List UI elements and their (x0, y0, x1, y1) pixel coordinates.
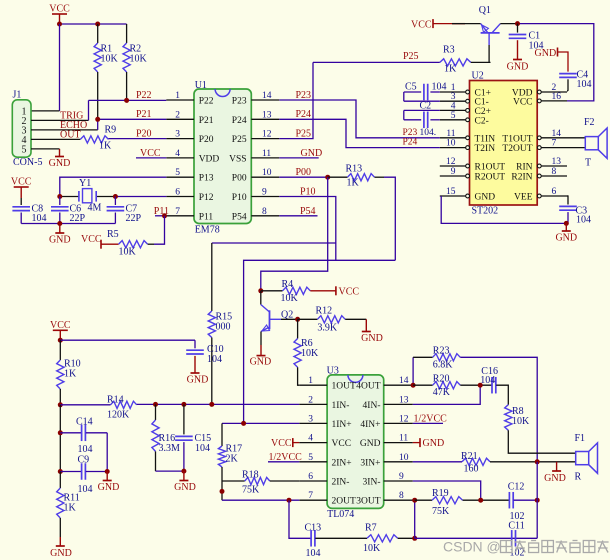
svg-text:15: 15 (446, 187, 456, 197)
svg-text:VCC: VCC (11, 177, 32, 188)
svg-text:1K: 1K (64, 503, 77, 514)
resistor R2 (126, 24, 128, 43)
U3 pin 3 (1IN+) (299, 422, 327, 424)
wire P11 stub (155, 215, 166, 217)
svg-text:1K: 1K (64, 369, 77, 380)
resistor R8 (505, 405, 512, 431)
svg-text:GND: GND (301, 148, 323, 159)
svg-text:P00: P00 (296, 167, 312, 178)
resistor R3 (440, 59, 471, 66)
U1 pin 1 (P22) (166, 99, 194, 101)
svg-text:GND: GND (423, 438, 445, 449)
U2 pin 7 (T2OUT) (541, 147, 567, 149)
svg-text:CSDN @: CSDN @ (443, 539, 501, 555)
svg-text:P25: P25 (296, 128, 312, 139)
svg-text:1IN-: 1IN- (332, 401, 350, 411)
junction at VCC/R1 column (57, 22, 62, 27)
wire R7 to junction (398, 537, 415, 539)
svg-text:22P: 22P (70, 213, 86, 224)
wire P13 to crystal (60, 177, 167, 196)
wire P25 from U1 up to R3 line (279, 62, 313, 138)
junction C15 bottom (181, 469, 186, 474)
resistor R13 (328, 176, 348, 178)
svg-text:P21: P21 (136, 109, 152, 120)
svg-text:P20: P20 (136, 128, 152, 139)
wire J1 pin1 to VCC (59, 24, 61, 111)
svg-text:GND: GND (174, 482, 196, 493)
ground under C10 (194, 365, 196, 374)
svg-text:6.8K: 6.8K (433, 359, 454, 370)
capacitor C16 (491, 377, 493, 394)
wire R5 to P11 (148, 243, 154, 245)
svg-text:104: 104 (78, 444, 93, 455)
wire into C2+ pin4 (404, 109, 440, 111)
U1 pin 13 (P24) (251, 118, 279, 120)
wire J1 pin4 OUT (31, 138, 80, 140)
svg-text:14: 14 (399, 376, 409, 386)
svg-text:GND: GND (250, 357, 272, 368)
svg-text:1: 1 (308, 376, 313, 386)
svg-text:4IN+: 4IN+ (360, 420, 380, 430)
svg-text:EM78: EM78 (195, 224, 220, 235)
svg-text:104: 104 (576, 215, 591, 226)
U2 pin 4 (C2+) (440, 109, 466, 111)
junction R2/P22 (124, 98, 129, 103)
svg-text:3: 3 (308, 414, 313, 424)
svg-text:14: 14 (262, 91, 272, 101)
wire VCC rail (60, 23, 127, 25)
svg-text:R2IN: R2IN (511, 173, 532, 183)
svg-text:VEE: VEE (514, 193, 533, 203)
svg-text:C11: C11 (508, 521, 524, 532)
svg-text:104: 104 (195, 443, 210, 454)
ground at R12 (365, 319, 367, 331)
resistor R19 (415, 499, 432, 501)
svg-text:OUT: OUT (60, 129, 81, 140)
svg-text:R23: R23 (433, 345, 450, 356)
junction C3 bottom (564, 221, 569, 226)
svg-text:10K: 10K (101, 54, 119, 65)
svg-text:C14: C14 (76, 417, 93, 428)
svg-text:10K: 10K (281, 293, 299, 304)
svg-text:GND: GND (50, 548, 72, 559)
svg-text:GND: GND (544, 473, 566, 484)
svg-text:R20: R20 (433, 373, 450, 384)
svg-text:CON-5: CON-5 (13, 157, 42, 168)
svg-text:P11: P11 (199, 212, 214, 222)
resistor R4 (258, 288, 263, 293)
resistor R23 (413, 356, 433, 358)
svg-text:P13: P13 (199, 174, 214, 184)
U3 pin 8 (3OUT) (384, 499, 413, 501)
junction pin14 node (411, 383, 416, 388)
svg-text:11: 11 (446, 129, 455, 139)
wire R16/C15 bottom (156, 470, 184, 472)
capacitor C8 (20, 198, 22, 205)
wire 2OUT row (222, 499, 299, 501)
wire into C1- pin3 (404, 100, 440, 102)
wire R15 top link (212, 242, 336, 244)
capacitor C14 (60, 432, 81, 434)
U2 pin 14 (T1OUT) (541, 137, 567, 139)
junction VCC/R10/C10 (58, 338, 63, 343)
svg-text:P23: P23 (403, 128, 418, 138)
wire U2 GND pin15 loop (441, 196, 568, 223)
svg-text:VSS: VSS (229, 154, 246, 164)
junction crystal right (113, 194, 118, 199)
wire P10 stub down to line A (279, 197, 336, 261)
wire R6 to U3 1OUT (298, 367, 300, 385)
wire vertical pin8 to bottom row (414, 500, 416, 538)
resistor R5 (119, 241, 148, 248)
svg-text:8: 8 (552, 167, 557, 177)
resistor R21 (413, 461, 462, 463)
svg-text:VCC: VCC (332, 439, 352, 449)
speaker F2 (567, 137, 585, 139)
U3 pin 13 (4IN-) (384, 403, 413, 405)
svg-text:4: 4 (308, 434, 313, 444)
svg-text:8: 8 (399, 491, 404, 501)
svg-text:P10: P10 (232, 193, 247, 203)
svg-text:R21: R21 (461, 451, 478, 462)
svg-text:R1OUT: R1OUT (475, 163, 506, 173)
svg-text:10: 10 (262, 168, 272, 178)
junction bus/R15 (209, 402, 214, 407)
capacitor C11 (511, 530, 513, 547)
svg-text:P25: P25 (403, 51, 419, 62)
svg-text:2: 2 (308, 395, 313, 405)
svg-text:GND: GND (360, 439, 381, 449)
wire C4 to U2 VDD pin2 (567, 90, 568, 92)
svg-text:7: 7 (552, 139, 557, 149)
wire ground bus under crystal (21, 223, 115, 225)
svg-text:9: 9 (451, 167, 456, 177)
svg-text:R13: R13 (346, 164, 363, 175)
svg-text:T: T (585, 158, 591, 169)
svg-text:5: 5 (308, 453, 313, 463)
wire R9 to U1 P20 (109, 138, 167, 140)
svg-text:104: 104 (432, 82, 447, 93)
svg-text:12: 12 (446, 157, 456, 167)
svg-text:C2-: C2- (475, 116, 489, 126)
junction R19/pin9 node (478, 498, 483, 503)
svg-text:R2OUT: R2OUT (475, 173, 506, 183)
svg-text:P24: P24 (232, 116, 247, 126)
svg-text:1/2VCC: 1/2VCC (269, 452, 303, 463)
svg-text:R7: R7 (365, 523, 377, 534)
wire J1 pin2 TRIG (31, 119, 89, 121)
junction crystal left (57, 194, 62, 199)
wire P54 stub (279, 215, 317, 217)
wire P25 to R3 (313, 61, 440, 63)
U2 pin 10 (T2IN) (440, 147, 466, 149)
U3 pin 1 (1OUT) (299, 384, 327, 386)
wire Q1 base to R3 (488, 33, 490, 45)
junction bus/C15 (181, 402, 186, 407)
U3 pin 11 (GND) (384, 442, 413, 444)
capacitor C10 (194, 340, 196, 348)
wire P00 down to Q2 collector (261, 177, 328, 291)
svg-text:6: 6 (552, 187, 557, 197)
wire R19 to C12 (463, 499, 509, 501)
svg-text:104: 104 (480, 375, 495, 386)
svg-text:VCC: VCC (140, 148, 161, 159)
svg-text:22P: 22P (126, 213, 142, 224)
svg-text:P23: P23 (232, 97, 247, 107)
svg-text:2OUT: 2OUT (332, 497, 356, 507)
resistor R6 (297, 319, 299, 338)
wire J1 pin5 to ground (31, 148, 60, 150)
power label VCC at U1 VDD (136, 157, 166, 159)
power VCC port at R4 (310, 290, 336, 292)
svg-text:R4: R4 (282, 279, 294, 290)
capacitor C4 (559, 73, 577, 75)
svg-text:VCC: VCC (50, 320, 71, 331)
svg-text:1K: 1K (444, 64, 457, 75)
wire C12 right to long vertical (514, 499, 538, 501)
wire C13 to R7 (315, 537, 367, 539)
svg-text:Q1: Q1 (479, 5, 491, 16)
IC U3 TL074 (327, 375, 384, 509)
svg-text:16: 16 (552, 92, 562, 102)
resistor R1 (97, 24, 99, 43)
resistor R20 (413, 384, 433, 386)
U2 pin 8 (R2IN) (541, 175, 567, 177)
svg-text:5: 5 (22, 144, 27, 155)
svg-text:10K: 10K (301, 348, 319, 359)
wire collector node to U2 VCC pin16 (518, 24, 594, 101)
svg-text:VCC: VCC (81, 234, 102, 245)
svg-text:GND: GND (49, 158, 71, 169)
svg-text:2IN+: 2IN+ (332, 458, 352, 468)
svg-text:ST202: ST202 (472, 206, 499, 217)
svg-text:104: 104 (207, 354, 222, 365)
svg-text:10K: 10K (512, 416, 530, 427)
U3 pin 2 (1IN-) (299, 403, 327, 405)
junction pin8/R19 (412, 498, 417, 503)
svg-text:GND: GND (507, 62, 529, 73)
ground at J1 pin5 (59, 149, 61, 157)
svg-text:5: 5 (175, 168, 180, 178)
capacitor C5 (404, 91, 421, 93)
U2 pin 3 (C1-) (440, 100, 466, 102)
wire pin9 to pin8 row (413, 481, 481, 500)
U3 pin 5 (2IN+) (299, 461, 327, 463)
U1 pin 2 (P21) (166, 118, 194, 120)
svg-text:11: 11 (399, 434, 408, 444)
wire R12 to ground (345, 318, 366, 320)
junction R20/C16 (478, 383, 483, 388)
svg-text:R: R (575, 472, 582, 483)
junction C12/long vertical (535, 498, 540, 503)
resistor R15 (211, 243, 213, 311)
net label 1/2VCC at U3 pin12 (413, 422, 443, 424)
svg-text:3.9K: 3.9K (317, 322, 338, 333)
svg-text:GND: GND (475, 193, 496, 203)
U1 pin 10 (P00) (251, 176, 279, 178)
svg-text:12: 12 (262, 130, 272, 140)
svg-text:C13: C13 (305, 522, 322, 533)
svg-text:P20: P20 (199, 135, 214, 145)
ground port at U3 pin11 (413, 442, 420, 444)
resistor R7 (367, 535, 398, 542)
capacitor C7 (114, 197, 116, 206)
wire R8 to F1 top (508, 430, 575, 453)
U1 pin 9 (P10) (251, 196, 279, 198)
U2 pin 13 (RIN) (541, 165, 567, 167)
resistor R10 (59, 340, 61, 360)
wire R23 to long vertical (460, 357, 537, 462)
svg-text:U1: U1 (195, 80, 207, 91)
svg-text:P21: P21 (199, 116, 214, 126)
svg-text:C9: C9 (78, 455, 90, 466)
junction 2OUT/C13 branch (287, 498, 292, 503)
svg-text:P22: P22 (136, 90, 152, 101)
capacitor C2 (404, 119, 421, 121)
svg-text:RIN: RIN (516, 163, 533, 173)
capacitor C1 (517, 24, 519, 33)
U2 pin 16 (VCC) (541, 100, 567, 102)
wire R14 bus left (60, 404, 110, 406)
svg-text:11: 11 (262, 149, 271, 159)
U3 pin 10 (3IN+) (384, 461, 413, 463)
svg-text:VCC: VCC (513, 97, 533, 107)
IC U1 EM78 (194, 89, 251, 224)
wire C16 to R8 (496, 385, 508, 405)
svg-text:7: 7 (308, 491, 313, 501)
wire bottom row to C11 corner (415, 537, 538, 539)
capacitor C12 (508, 492, 510, 509)
svg-text:F1: F1 (575, 433, 586, 444)
svg-text:4: 4 (175, 149, 180, 159)
svg-text:C5: C5 (405, 82, 417, 93)
U1 pin 14 (P23) (251, 99, 279, 101)
U2 pin 15 (GND) (440, 195, 466, 197)
svg-text:1OUT: 1OUT (332, 382, 356, 392)
svg-text:U3: U3 (327, 365, 339, 376)
ground at C14/C9 (106, 472, 108, 481)
connector J1 CON-5 (12, 100, 31, 157)
svg-text:R14: R14 (107, 395, 124, 406)
net label GND at U1 VSS (279, 157, 318, 159)
svg-text:R3: R3 (443, 44, 455, 55)
svg-text:P10: P10 (300, 186, 316, 197)
U3 pin 12 (4IN+) (384, 422, 413, 424)
ground at Q2 emitter (260, 332, 262, 346)
svg-text:GND: GND (98, 482, 120, 493)
wire 1IN+ vertical junction (241, 421, 246, 426)
wire C14-C9 right side (106, 433, 108, 472)
ground under R16/C15 (183, 471, 185, 480)
resistor R12 (298, 318, 318, 320)
net label 1/2VCC at U3 pin5 (268, 461, 299, 463)
wire 1IN- bus to U3 pin2 (137, 403, 300, 405)
svg-text:P54: P54 (300, 206, 316, 217)
svg-text:4M: 4M (88, 203, 102, 214)
svg-text:2: 2 (175, 110, 180, 120)
capacitor C13 (310, 530, 312, 547)
svg-text:4OUT: 4OUT (356, 382, 380, 392)
svg-text:12: 12 (399, 414, 409, 424)
wire U3 pin13 to C16 node (413, 385, 480, 404)
svg-text:6: 6 (175, 188, 180, 198)
svg-text:C12: C12 (508, 481, 525, 492)
svg-text:3: 3 (175, 130, 180, 140)
svg-text:104: 104 (32, 213, 47, 224)
svg-text:13: 13 (262, 110, 272, 120)
svg-text:P22: P22 (199, 97, 214, 107)
svg-text:5: 5 (451, 111, 456, 121)
svg-text:14: 14 (552, 129, 562, 139)
svg-text:R12: R12 (316, 306, 333, 317)
wire long vertical R21 to bottom (536, 462, 538, 539)
svg-text:TL074: TL074 (327, 509, 354, 520)
resistor R9 (80, 136, 108, 143)
resistor R18 (222, 480, 245, 482)
svg-text:7: 7 (175, 207, 180, 217)
wire line A to 1IN+ (244, 260, 396, 423)
svg-text:GND: GND (555, 233, 577, 244)
U3 pin 9 (3IN-) (384, 480, 413, 482)
svg-text:10K: 10K (130, 54, 148, 65)
svg-text:1K: 1K (99, 141, 112, 152)
wire TRIG to U1 P22 (89, 99, 167, 101)
svg-text:GND: GND (49, 235, 71, 246)
svg-text:9: 9 (399, 472, 404, 482)
svg-text:P12: P12 (199, 193, 214, 203)
U1 pin 6 (P12) (166, 196, 194, 198)
IC U2 ST202 (470, 81, 538, 206)
svg-text:VCC: VCC (339, 286, 360, 297)
U1 pin 3 (P20) (166, 138, 194, 140)
U3 pin 7 (2OUT) (299, 499, 327, 501)
junction bus/GND (57, 221, 62, 226)
wire R21 to F1 bottom (490, 461, 576, 463)
ground under C3 (565, 223, 567, 231)
wire R20 to C16 (460, 384, 491, 386)
svg-text:P24: P24 (403, 138, 418, 148)
ground under crystal bus (59, 224, 61, 234)
svg-text:VCC: VCC (49, 4, 70, 15)
junction bus/R16 (153, 402, 158, 407)
svg-text:3IN+: 3IN+ (360, 458, 380, 468)
svg-text:75K: 75K (432, 506, 450, 517)
capacitor C6 (59, 197, 61, 206)
U1 pin 12 (P25) (251, 138, 279, 140)
junction R10/bus (58, 402, 63, 407)
capacitor C15 (183, 404, 185, 434)
resistor R14 (111, 401, 137, 408)
U1 pin 4 (VDD) (166, 157, 194, 159)
svg-text:R18: R18 (242, 470, 259, 481)
svg-text:10K: 10K (363, 543, 381, 554)
wire pin14 node up to R23 (412, 357, 414, 385)
ground at F1 input (556, 462, 558, 471)
svg-text:U2: U2 (472, 71, 484, 82)
svg-text:2K: 2K (226, 453, 239, 464)
svg-text:75K: 75K (242, 485, 260, 496)
ground under R11 (59, 537, 61, 546)
svg-text:47K: 47K (433, 387, 451, 398)
wire P12 to crystal (115, 196, 166, 198)
svg-text:10: 10 (446, 139, 456, 149)
svg-text:VCC: VCC (271, 438, 292, 449)
svg-text:6: 6 (308, 472, 313, 482)
svg-text:160: 160 (464, 464, 479, 475)
svg-text:000: 000 (216, 322, 231, 333)
svg-text:13: 13 (552, 157, 562, 167)
U3 pin 6 (2IN-) (299, 480, 327, 482)
